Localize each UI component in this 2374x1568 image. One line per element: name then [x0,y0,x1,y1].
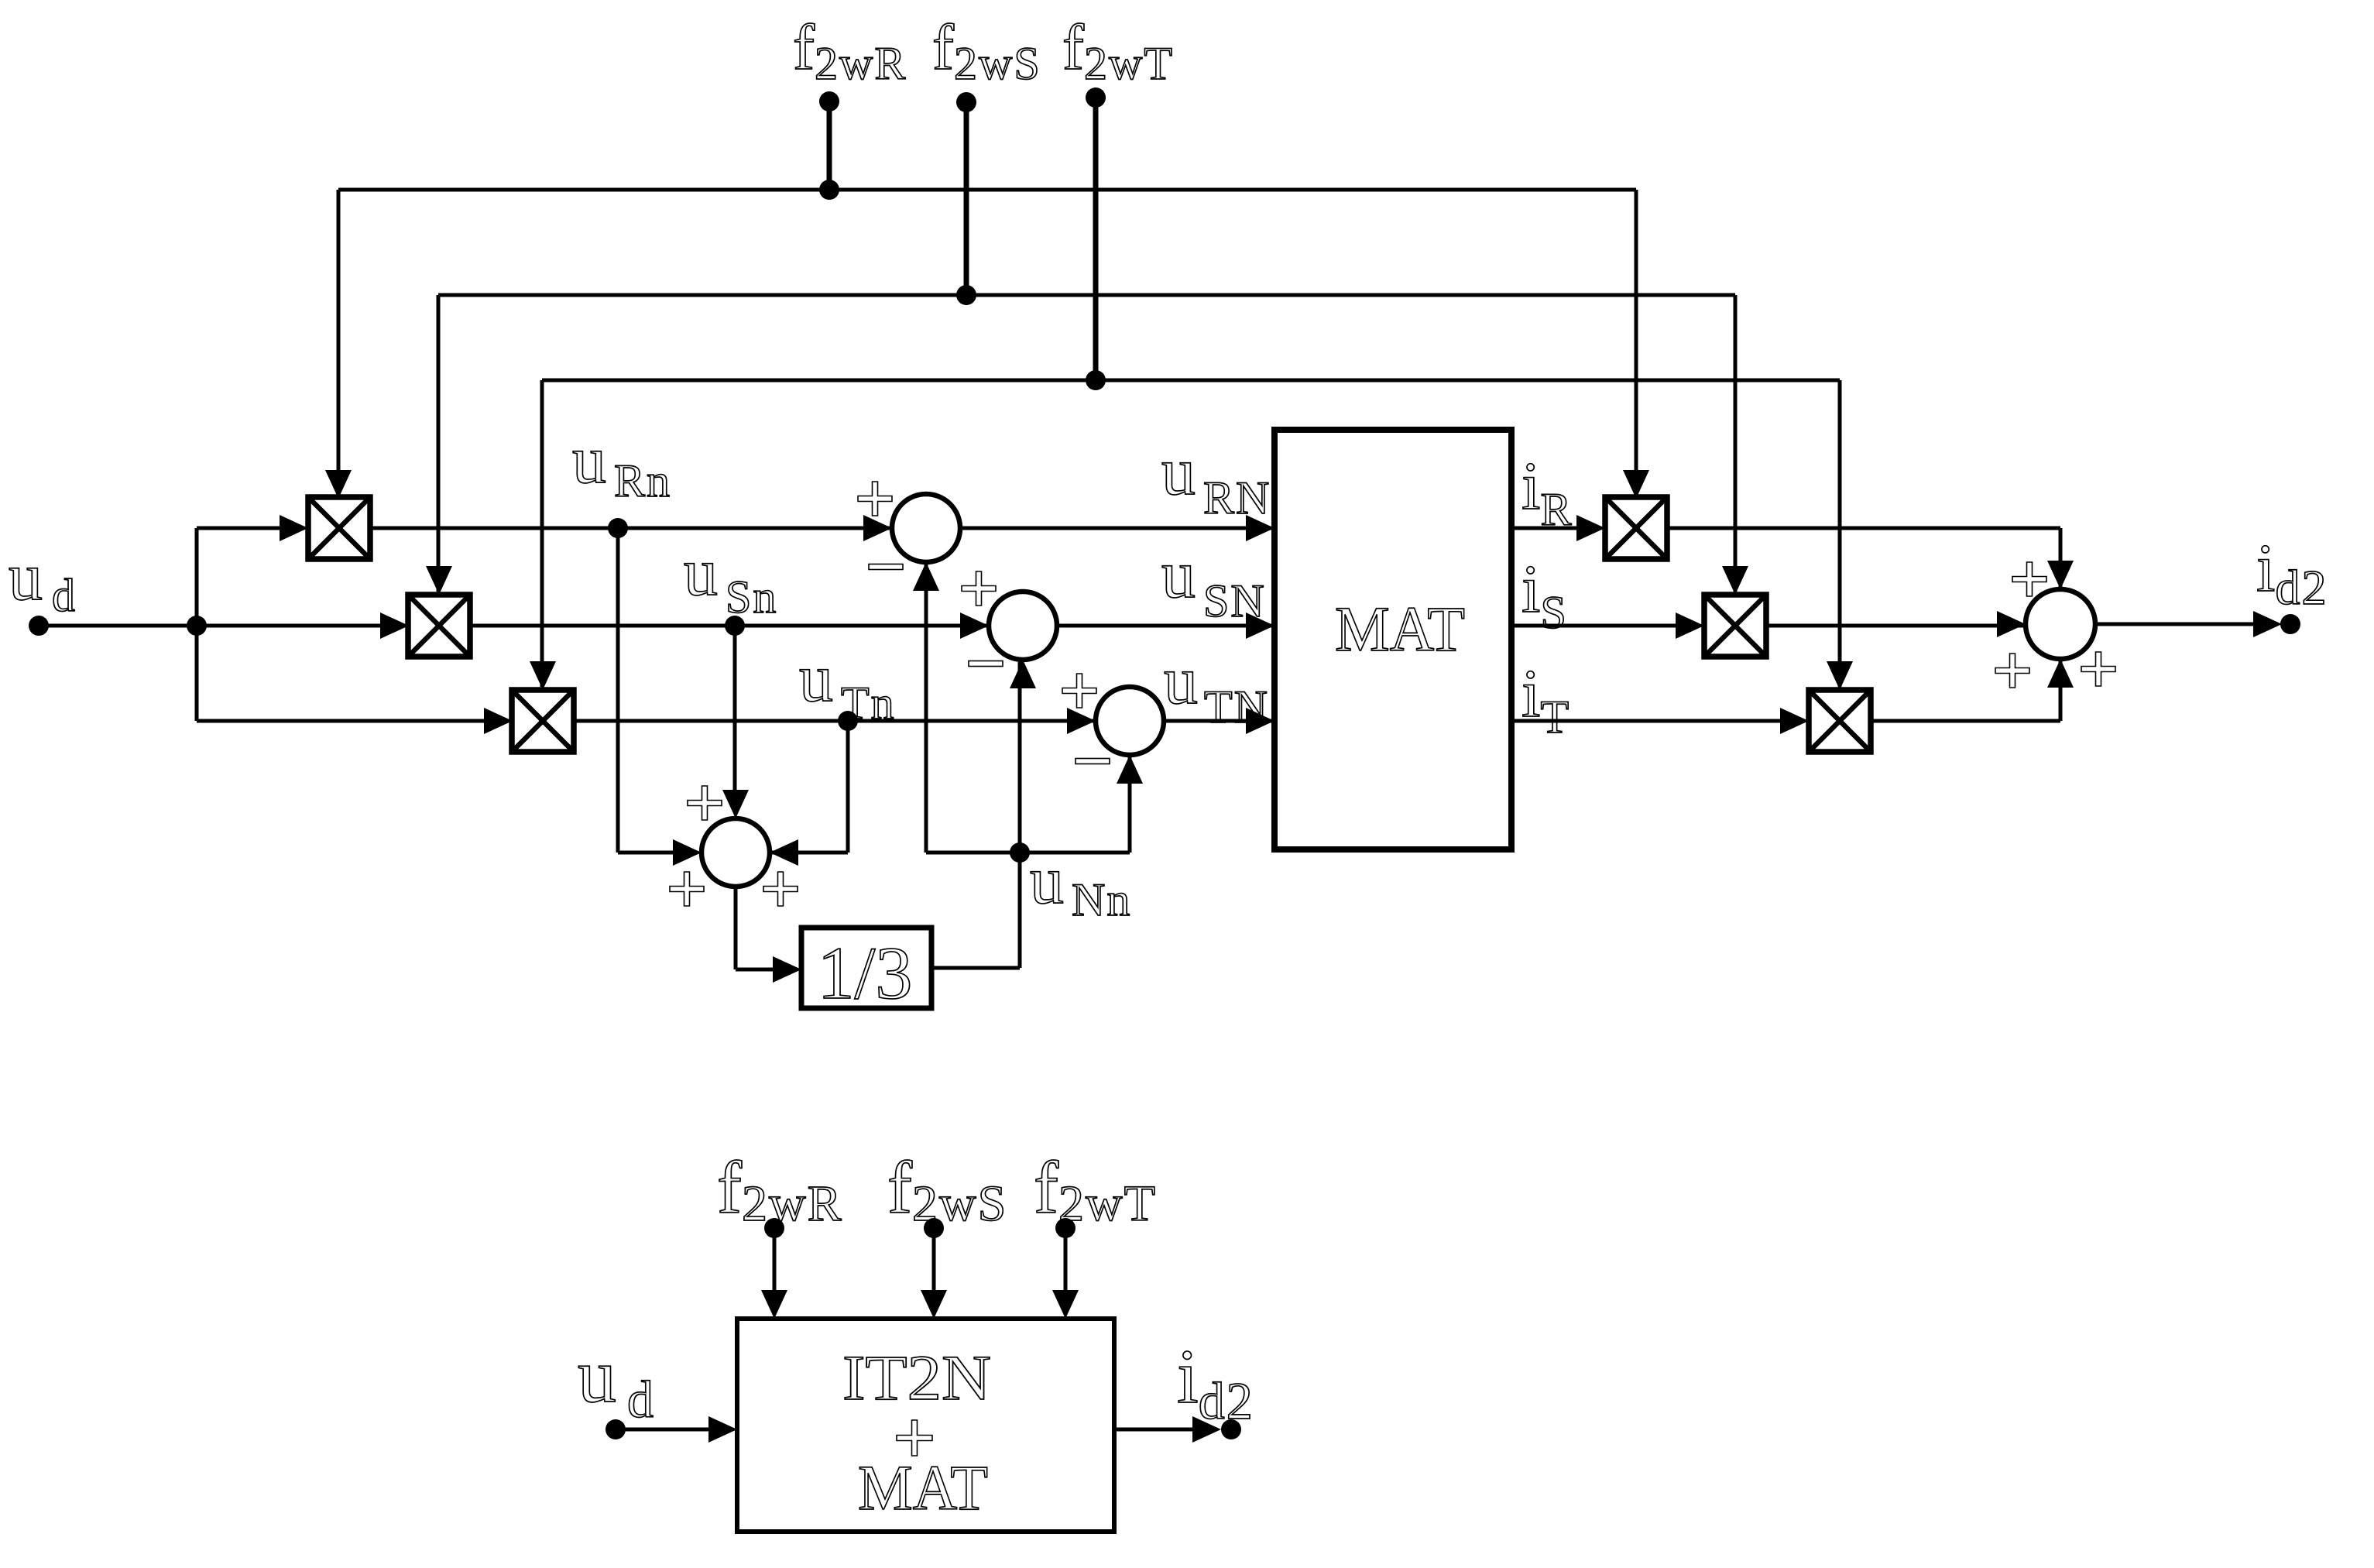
terminal f2wT bottom [1055,1218,1076,1238]
plus S4 left input [670,872,704,906]
arrow into S3 left [1067,708,1096,734]
wire 1/3 out [931,966,1020,970]
summer S4 [702,818,770,887]
junction uNn [1010,842,1030,863]
multiplier X1 [308,497,370,559]
wire X6 out [1871,719,2060,723]
wire iS out [1511,624,1679,628]
wire f2wS drop [964,102,969,295]
junction f2wT on row T [1086,370,1106,390]
arrow into S4 right [770,839,798,866]
arrow into X3 left [484,708,513,734]
minus S3 input [1076,759,1110,764]
wire row T to X6 [1838,380,1842,687]
wire uRn to S4 left [618,851,676,855]
junction uRn [608,518,628,538]
wire f2wT into block [1064,1228,1068,1292]
wire uTn to S4 right [770,851,848,855]
arrow into S2 bottom [1010,660,1036,688]
arrow before id2 terminal [2253,611,2282,637]
arrow into X6 top [1827,661,1853,690]
block IT2N+MAT [737,1319,1114,1532]
wire uSn down [733,626,737,793]
plus S3 input [1062,674,1096,708]
multiplier X4 [1605,497,1667,559]
junction f2wS on row S [956,285,976,305]
arrow f2wT into block [1052,1290,1079,1319]
summer S3 [1096,687,1164,755]
wire X2 out to S2 [470,624,989,628]
wire row R to X4 [1635,190,1638,496]
wire ud to branch [39,624,197,628]
wire X4 out [1667,527,2060,530]
wire uNn horizontal [926,851,1130,855]
wire S5 out [2095,623,2261,626]
minus S2 input [969,661,1003,667]
svg-text:MAT: MAT [1335,593,1465,664]
arrow into S3 bottom [1117,755,1143,784]
arrow before id2 bottom [1192,1416,1221,1443]
plus inside block [897,1420,932,1456]
wire f2wR into block [773,1228,777,1292]
wire branch to X1 [197,527,283,530]
arrow into X6 left [1780,708,1809,734]
multiplier X5 [1704,595,1766,657]
summer S1 [892,494,960,562]
plus S1 input [858,482,892,516]
arrow into 1/3 box [773,956,801,983]
terminal f2wS [956,92,976,112]
arrow into MAT row T [1246,708,1274,734]
wire S4 out down [734,887,738,969]
arrow ud into block [708,1416,737,1443]
wire iT out [1511,719,1783,723]
gain block 1/3 [801,928,931,1008]
wire branch to X3 [197,719,487,723]
wire feedback row R [338,188,1636,192]
wire iR out [1511,527,1580,530]
arrow f2wS into block [921,1290,947,1319]
terminal id2 [2280,614,2300,634]
wire uNn up to S3 [1128,757,1132,853]
wire X4 down to S5 [2059,528,2063,587]
arrow into X2 top [426,566,452,595]
wire row S to X5 [1734,295,1738,592]
multiplier X2 [408,595,470,657]
wire branch vertical [195,528,199,721]
arrow into MAT row R [1246,515,1274,541]
wire row S to X2 [437,295,441,592]
wire row R to X1 [337,190,341,496]
summer S5 [2026,589,2095,659]
summer S2 [989,592,1057,660]
wire feedback row T [542,379,1840,383]
plus S2 input [962,571,996,606]
junction ud branch [187,616,207,636]
arrow into MAT row S [1246,612,1274,639]
arrow into X5 left [1676,612,1704,639]
wire f2wS into block [932,1228,936,1292]
plus S4 right input [763,872,798,906]
arrow into S1 left [863,515,892,541]
wire S4 out to 1/3 [736,968,776,972]
arrow into S5 top [2047,561,2074,589]
arrow into X3 top [530,661,556,690]
wire f2wR drop [827,101,832,190]
terminal f2wR bottom [764,1218,784,1238]
arrow into X5 top [1722,566,1748,595]
terminal f2wS bottom [924,1218,944,1238]
multiplier X3 [512,690,574,752]
arrow into X4 left [1576,515,1605,541]
wire uNn up to S1 [925,564,928,853]
plus S5 bottom input [2081,652,2115,686]
wire ud into block [616,1428,712,1432]
wire uTn down [846,721,850,853]
wire feedback row S [438,293,1735,297]
svg-text:MAT: MAT [858,1452,988,1523]
terminal id2 bottom [1221,1419,1241,1439]
arrow into S1 bottom [913,562,939,591]
arrow into S4 left [673,839,702,866]
arrow into X2 left [380,612,409,639]
wire S3 to MAT [1164,719,1274,723]
svg-text:IT2N: IT2N [842,1342,991,1413]
terminal f2wR [819,91,839,112]
wire S1 to MAT [960,527,1274,530]
wire X5 out [1766,624,2026,628]
junction uSn [725,616,745,636]
arrow f2wR into block [761,1290,787,1319]
minus S1 input [869,564,903,570]
junction f2wR on row R [819,180,839,200]
arrow into S4 top [722,790,749,818]
multiplier X6 [1809,690,1871,752]
wire X6 up to S5 [2059,661,2063,721]
wire f2wT drop [1093,98,1099,380]
plus S4 top input [688,786,722,820]
arrow into X1 top [325,470,352,499]
arrow into S2 left [960,612,989,639]
wire X1 out to S1 [370,527,892,530]
wire row T to X3 [540,380,544,687]
wire block out [1114,1428,1200,1432]
arrow into S5 left [1997,611,2026,637]
junction uTn [838,711,858,731]
wire uRn down [616,528,620,853]
block MAT [1274,430,1511,849]
arrow into X1 left [280,515,308,541]
svg-text:1/3: 1/3 [818,932,913,1014]
terminal ud [29,616,49,636]
arrow into X4 top [1623,470,1649,499]
wire branch to X2 [197,624,383,628]
wire X3 out to S3 [574,719,1096,723]
wire S2 to MAT [1057,624,1274,628]
arrow into S5 bottom [2047,659,2074,688]
plus S5 top input [2012,562,2046,596]
plus S5 left input [1995,654,2029,688]
terminal ud bottom [606,1419,626,1439]
terminal f2wT [1086,87,1106,108]
wire uNn up to S2 [1018,662,1022,968]
